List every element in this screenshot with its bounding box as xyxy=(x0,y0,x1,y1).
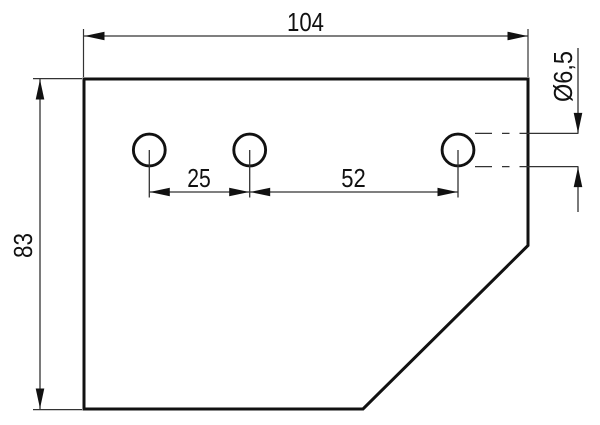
hole 1 xyxy=(133,134,165,166)
dimension 6.5: upper extension line xyxy=(528,132,579,134)
plate outline xyxy=(84,79,528,409)
dimension 83: dimension line xyxy=(39,79,41,409)
dimension 83: bottom arrow xyxy=(36,389,45,409)
hole 3 center line xyxy=(457,150,459,198)
dimension 104: dimension line xyxy=(84,35,528,37)
dimension 6.5: lower arrow (up) xyxy=(574,167,583,187)
hole 1 center line xyxy=(148,150,150,198)
hole 2 xyxy=(234,134,266,166)
dimension 104: extension line right xyxy=(527,29,529,77)
svg-text:83: 83 xyxy=(8,233,38,258)
dimension 6.5: upper arrow (down) xyxy=(574,113,583,133)
dimension 83: top arrow xyxy=(36,80,45,100)
svg-text:52: 52 xyxy=(341,163,366,193)
hole 3 lower tangent dashed line xyxy=(475,166,529,168)
dimension 25: right arrow xyxy=(229,188,249,197)
dimension 6.5: lower leader line xyxy=(577,167,579,212)
svg-text:25: 25 xyxy=(187,163,211,193)
dimension 6.5: upper leader line xyxy=(577,48,579,133)
svg-text:Ø6,5: Ø6,5 xyxy=(548,51,578,102)
dimension 52: right arrow xyxy=(438,188,458,197)
dimension 52: left arrow xyxy=(250,188,270,197)
dimension 104: right arrow xyxy=(508,32,528,41)
dimension 25: left arrow xyxy=(150,188,170,197)
svg-text:104: 104 xyxy=(287,7,324,37)
dimension 25/52: dimension line xyxy=(149,191,458,193)
hole 3 xyxy=(442,134,474,166)
dimension 83: extension line top xyxy=(33,78,82,80)
hole 2 center line xyxy=(249,150,251,198)
dimension 104: left arrow xyxy=(85,32,105,41)
dimension 83: extension line bottom xyxy=(33,409,82,411)
dimension 104: extension line left xyxy=(83,29,85,77)
hole 3 upper tangent dashed line xyxy=(475,132,529,134)
dimension 6.5: lower extension line xyxy=(528,166,579,168)
